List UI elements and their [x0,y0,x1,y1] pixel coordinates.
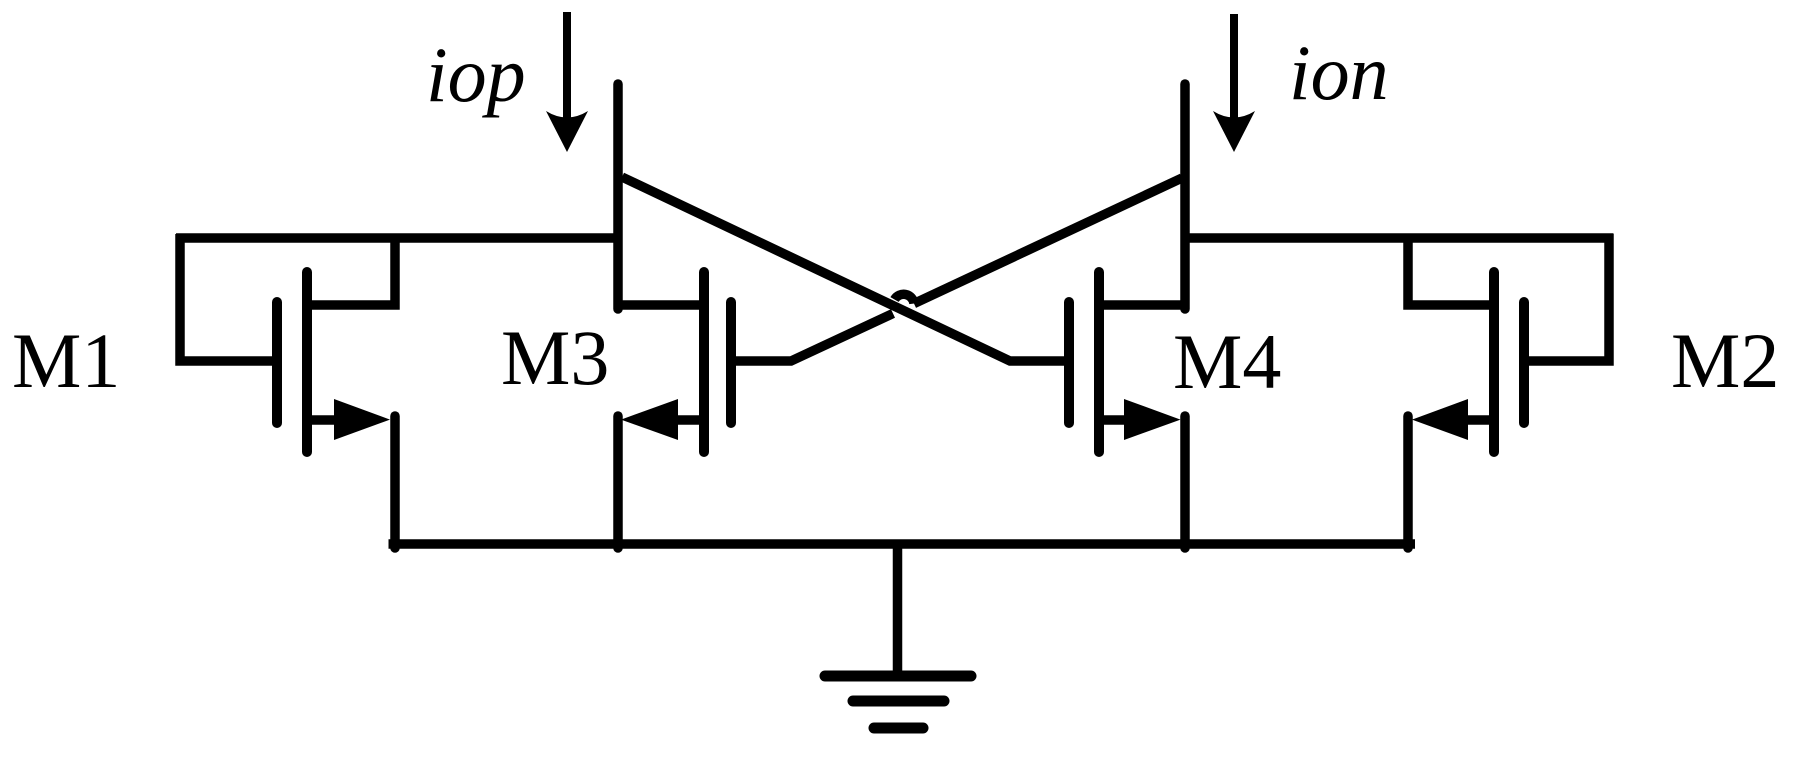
wire: M2 source stub [1439,415,1494,425]
transistor M1 gate bar [272,302,282,423]
wire: M1 source stub [307,415,360,425]
svg-text:M4: M4 [1173,318,1281,405]
wire: bottom rail [389,539,1416,549]
transistor M2 gate bar [1519,302,1529,423]
wire: M2 drain stub + vertical [1408,238,1494,305]
wire: top-left rail [176,233,622,243]
wire: M4 drain stub [1099,300,1185,310]
current arrow iop shaft [563,12,571,125]
transistor M2 channel bar [1489,272,1499,452]
svg-text:M3: M3 [501,314,609,401]
wire: M2 source vertical down [1403,416,1413,548]
ground bar 1 [825,671,971,682]
wire: cross-couple diagonal M3 gate to M4 drain (with hop gap) [731,314,893,362]
transistor M1 channel bar [302,272,312,452]
wire: top-right rail [1181,233,1614,243]
wire: M3 drain stub [618,300,704,310]
ground bar 2 [853,696,944,707]
M2 source arrowhead [1412,399,1468,440]
transistor M3 gate bar [726,302,736,423]
M1 source arrowhead [334,399,390,440]
svg-text:ion: ion [1289,29,1389,116]
wire: M4 source stub [1099,415,1140,425]
wire: ground stem [893,544,903,676]
wire: M3 source stub [648,415,704,425]
transistor M4 gate bar [1064,302,1074,423]
svg-text:M1: M1 [12,317,120,404]
wire: M1 source vertical down [390,416,400,548]
svg-text:M2: M2 [1671,317,1779,404]
wire: M3 source vertical down [613,416,623,548]
wire: M1 drain stub + vertical [307,238,395,305]
wire: M4 source vertical down [1180,416,1190,548]
wire: M1 gate loop vertical [180,234,277,361]
wire hop arc at crossing [895,294,915,303]
svg-text:iop: iop [426,31,526,118]
transistor M4 channel bar [1094,272,1104,452]
arrowhead of iop current arrow [546,111,588,152]
M4 source arrowhead [1124,399,1181,440]
current arrow ion shaft [1230,14,1238,125]
wire: M2 gate loop vertical [1524,234,1609,361]
transistor M3 channel bar [699,272,709,452]
arrowhead of ion current arrow [1213,111,1255,152]
wire: M3 drain vertical (iop node) [613,84,623,309]
M3 source arrowhead [621,399,678,440]
wire: M4 drain vertical (ion node) [1180,84,1190,309]
ground bar 3 [874,723,923,734]
wire: cross-couple diagonal M3 drain to M4 gate [622,177,1069,361]
